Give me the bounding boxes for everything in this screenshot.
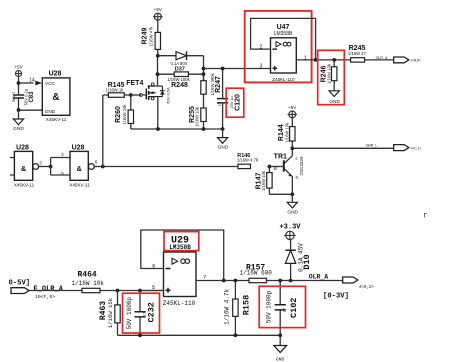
resistor R245: [348, 45, 394, 62]
wire main to U47 pin3: [204, 68, 271, 70]
svg-text:GND: GND: [276, 357, 285, 362]
svg-text:X45KV-11: X45KV-11: [14, 182, 35, 187]
pin marker arrow VCC: [35, 81, 42, 86]
node R463 top: [116, 289, 120, 293]
svg-text:50V 1000p: 50V 1000p: [126, 297, 133, 330]
svg-text:LT s: LT s: [284, 304, 288, 313]
node R158 top: [234, 279, 238, 283]
node base/R147: [268, 165, 272, 169]
IC U28 power part: [42, 71, 70, 123]
op-amp U29: [163, 252, 196, 307]
wire bottom rail: [118, 334, 281, 336]
svg-text:1/16W 10k: 1/16W 10k: [72, 280, 105, 287]
resistor R463: [99, 291, 120, 336]
svg-text:1/16W 15k: 1/16W 15k: [107, 297, 114, 328]
wire FET source down: [157, 97, 159, 129]
wire to FET gate: [131, 94, 141, 96]
node rail C232: [138, 333, 142, 337]
svg-text:3: 3: [260, 64, 263, 70]
resistor R255: [189, 106, 206, 129]
resistor R247: [201, 72, 222, 108]
wire gnd rail: [131, 128, 223, 130]
svg-text:GND: GND: [218, 145, 229, 151]
svg-text:U28: U28: [16, 145, 29, 152]
svg-text:Z45KL-110: Z45KL-110: [163, 300, 196, 307]
wire split to gate2 inputs: [51, 158, 70, 176]
svg-text:0.1A 80V: 0.1A 80V: [171, 61, 188, 66]
node GND tap: [17, 108, 21, 112]
svg-text:e: e: [296, 175, 299, 180]
node C232 top: [138, 289, 142, 293]
node gate1 out: [49, 165, 53, 169]
svg-text:60V 0.5A: 60V 0.5A: [166, 87, 171, 104]
svg-text:20V 1u: 20V 1u: [230, 96, 234, 108]
svg-text:LT: LT: [218, 101, 222, 106]
ground (TR1): [287, 194, 298, 215]
resistor R158: [223, 281, 251, 336]
wire U29 output: [196, 280, 249, 282]
svg-text:+3.3V: +3.3V: [279, 223, 301, 231]
svg-text:4: 4: [61, 152, 64, 157]
svg-text:GND: GND: [329, 99, 340, 105]
node rail C120: [221, 127, 225, 131]
capacitor C120: [217, 69, 242, 130]
gate U28b: [61, 145, 98, 188]
svg-text:3: 3: [39, 161, 42, 166]
svg-text:1/16W 10k: 1/16W 10k: [284, 122, 289, 143]
node R248 left: [156, 72, 160, 76]
svg-text:FET4: FET4: [126, 80, 143, 87]
capacitor C102: [266, 281, 299, 336]
port output OLR_A bottom: [323, 277, 374, 301]
wire input row: [29, 290, 82, 292]
svg-text:50V 0.1u: 50V 0.1u: [23, 88, 28, 105]
svg-text:0-5V]: 0-5V]: [9, 279, 31, 287]
ground (R246): [329, 91, 340, 105]
node feedback/out: [222, 279, 226, 283]
svg-text:X45KV-11: X45KV-11: [69, 182, 90, 187]
highlight box C232: [123, 293, 160, 333]
svg-text:4<C,1>: 4<C,1>: [411, 146, 422, 150]
port output OLR_A: [394, 57, 421, 63]
svg-text:LM358B: LM358B: [169, 244, 191, 251]
svg-text:VCC: VCC: [45, 81, 56, 87]
svg-text:1/16W 4.7k: 1/16W 4.7k: [237, 157, 259, 162]
power +5V (left): [14, 65, 23, 77]
diode D37: [158, 51, 204, 72]
svg-text:C232: C232: [147, 302, 157, 322]
resistor R145: [103, 82, 131, 97]
svg-text:R248: R248: [171, 82, 188, 89]
node gate2 out: [101, 165, 105, 169]
power +3.3V: [279, 223, 301, 239]
wire FET drain up: [157, 56, 159, 86]
node rail FET: [156, 127, 160, 131]
svg-text:+5V: +5V: [154, 7, 163, 12]
svg-text:1/16W 680: 1/16W 680: [240, 270, 273, 277]
wire U47 feedback: [251, 18, 316, 60]
svg-text:c: c: [296, 156, 299, 161]
diode D10: [285, 240, 312, 281]
svg-text:R464: R464: [78, 270, 97, 279]
port input E_OLR_A: [9, 279, 64, 300]
svg-text:U28: U28: [72, 145, 85, 152]
resistor R464: [72, 270, 164, 292]
wire to GND pin: [19, 109, 43, 111]
node collector: [290, 146, 294, 150]
node R249/D37: [156, 54, 160, 58]
port output GBR: [394, 145, 422, 151]
svg-text:LM358B: LM358B: [274, 31, 293, 37]
power +5V (R249): [153, 7, 163, 20]
svg-text:4<0,2>: 4<0,2>: [359, 285, 375, 290]
ground (bottom): [274, 335, 287, 362]
transistor FET4: [126, 80, 170, 104]
svg-text:OLR_A: OLR_A: [376, 56, 388, 60]
wire gate2 out: [94, 166, 103, 168]
node emitter: [290, 192, 294, 196]
wire GBR out: [292, 147, 393, 149]
resistor R147: [256, 167, 273, 195]
svg-text:R158: R158: [242, 295, 252, 315]
highlight box C120: [226, 88, 244, 117]
svg-text:1/16W 10k: 1/16W 10k: [122, 104, 127, 125]
wire gate1 out: [39, 166, 51, 168]
power +5V (TR1): [288, 105, 298, 118]
svg-text:6: 6: [95, 160, 98, 165]
resistor R246: [320, 60, 337, 91]
svg-text:Z45KL-110: Z45KL-110: [272, 77, 295, 82]
svg-text:SB1 T: SB1 T: [12, 91, 16, 102]
svg-text:1/16W 47: 1/16W 47: [348, 51, 367, 56]
highlight box R246: [318, 50, 345, 104]
svg-text:GND: GND: [45, 109, 56, 115]
resistor R157: [240, 263, 343, 282]
svg-text:E_OLR_A: E_OLR_A: [34, 285, 64, 293]
node rail C102: [278, 333, 282, 337]
svg-text:1/16W 10k: 1/16W 10k: [327, 63, 332, 84]
svg-text:GBR_L: GBR_L: [366, 144, 378, 148]
svg-text:14: 14: [29, 77, 35, 83]
highlight box C102: [259, 286, 305, 327]
resistor R248: [158, 72, 204, 89]
ground (mid rail): [218, 129, 229, 151]
node D10 bottom: [289, 279, 293, 283]
svg-text:+5V: +5V: [288, 105, 297, 110]
svg-text:TR1: TR1: [274, 153, 287, 160]
svg-text:+5V: +5V: [14, 65, 23, 70]
wire base to bar: [269, 166, 283, 168]
svg-text:R247: R247: [215, 76, 222, 93]
node R246 top: [332, 58, 336, 62]
svg-text:10<F,6>: 10<F,6>: [35, 294, 55, 300]
svg-text:C120: C120: [235, 94, 242, 111]
resistor R260: [115, 95, 134, 129]
node main wire tap: [202, 67, 206, 71]
svg-text:1<B,8>: 1<B,8>: [410, 59, 420, 63]
wire emitter row: [269, 193, 292, 195]
svg-text:&: &: [77, 164, 83, 173]
transistor TR1: [274, 148, 304, 194]
wire riser to R145: [102, 95, 104, 167]
node feedback/out: [314, 58, 318, 62]
svg-text:U28: U28: [49, 71, 62, 78]
node VCC tap: [17, 81, 21, 85]
wire U47 output: [296, 59, 350, 61]
svg-text:OLR_A: OLR_A: [309, 273, 329, 280]
svg-text:[0-3V]: [0-3V]: [323, 293, 349, 301]
gate U28a: [10, 145, 42, 188]
wire to VCC pin: [19, 82, 34, 84]
resistor R144: [278, 118, 295, 149]
wire U29 feedback: [141, 230, 224, 281]
svg-text:&: &: [52, 92, 59, 103]
svg-text:GND: GND: [287, 210, 298, 216]
highlight box U47: [245, 11, 312, 83]
op-amp U47: [271, 24, 297, 82]
svg-text:C102: C102: [289, 298, 299, 318]
node rail R255: [202, 127, 206, 131]
node C120 top: [221, 67, 225, 71]
ground (below C83): [13, 119, 24, 132]
wire U29 pin5: [140, 290, 164, 292]
svg-text:50V 1000p: 50V 1000p: [266, 290, 273, 323]
svg-text:2SC3325: 2SC3325: [299, 156, 304, 176]
capacitor C232: [126, 291, 157, 336]
resistor R249: [142, 20, 161, 56]
node rail R158: [234, 333, 238, 337]
svg-text:D10: D10: [302, 254, 312, 269]
svg-text:X45KV-11: X45KV-11: [46, 117, 67, 122]
svg-text:1/16W 4.7k: 1/16W 4.7k: [223, 289, 230, 325]
highlight box U29 label: [164, 232, 199, 251]
wire D37 cathode down: [203, 56, 205, 81]
node R248 right: [202, 72, 206, 76]
svg-text:&: &: [21, 164, 27, 173]
svg-text:GND: GND: [13, 126, 24, 132]
wire base row to R146: [103, 166, 238, 168]
resistor R146: [237, 153, 259, 169]
node C102 top: [278, 279, 282, 283]
svg-text:Γ: Γ: [424, 213, 428, 220]
svg-text:1/16W 10k: 1/16W 10k: [261, 170, 266, 191]
svg-text:1/16W 1k: 1/16W 1k: [106, 88, 125, 93]
svg-text:1/16W 47k: 1/16W 47k: [148, 26, 153, 47]
svg-text:1/16W 10k: 1/16W 10k: [195, 106, 200, 127]
node R145/R260: [129, 93, 133, 97]
capacitor C83: [12, 88, 35, 105]
wire +5V column: [18, 77, 20, 119]
svg-text:C83: C83: [29, 91, 35, 103]
svg-text:7: 7: [203, 273, 206, 280]
